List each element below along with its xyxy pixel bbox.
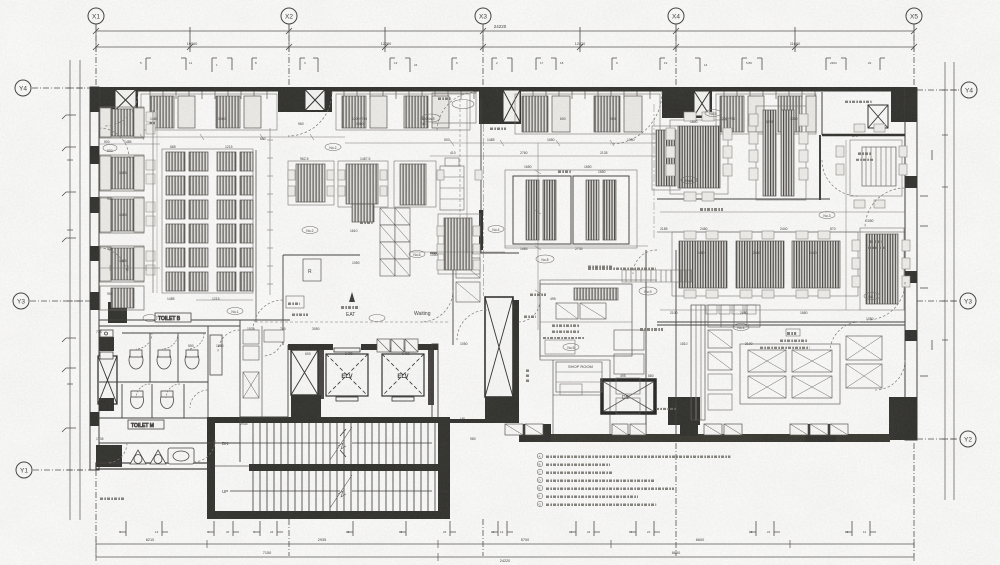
svg-text:22: 22 xyxy=(868,61,872,65)
F3 dark box xyxy=(680,424,698,436)
svg-text:600: 600 xyxy=(305,352,311,356)
corridor shelf boxes xyxy=(243,330,284,398)
svg-text:14: 14 xyxy=(500,530,504,534)
svg-text:6600: 6600 xyxy=(696,538,704,542)
door arc hall right xyxy=(457,310,487,340)
kitchen center counter xyxy=(540,284,632,356)
svg-text:R: R xyxy=(308,269,312,275)
svg-text:1485: 1485 xyxy=(119,213,127,217)
svg-text:1400: 1400 xyxy=(345,352,353,356)
svg-text:8210: 8210 xyxy=(146,538,154,542)
elevator ELV 1 xyxy=(326,354,368,396)
kitchen label xyxy=(786,329,800,336)
grid line Y3 left stub xyxy=(30,300,90,302)
chairs banquet long xyxy=(749,114,758,126)
svg-text:No.5: No.5 xyxy=(567,346,574,350)
mid table D tall xyxy=(438,214,480,274)
svg-text:1295+750: 1295+750 xyxy=(720,117,735,121)
svg-text:962.5: 962.5 xyxy=(300,157,309,161)
top elevation tick pairs xyxy=(146,58,885,72)
wall right of cluster xyxy=(255,150,257,322)
svg-text:UP: UP xyxy=(460,417,465,421)
svg-text:DN: DN xyxy=(442,489,449,494)
svg-text:21: 21 xyxy=(647,530,651,534)
lower-right banquet row xyxy=(672,232,858,296)
kitchen small equip labels xyxy=(622,270,692,282)
svg-text:600: 600 xyxy=(260,137,266,141)
grid line X1 xyxy=(95,24,97,88)
axis bubble Y3 right xyxy=(960,293,976,309)
kitchen top wall xyxy=(657,321,905,323)
top wall block X2 xyxy=(278,87,332,112)
stair top wall xyxy=(207,417,450,423)
svg-text:3050: 3050 xyxy=(312,327,320,331)
svg-text:17: 17 xyxy=(540,61,544,65)
text below tatami xyxy=(588,267,656,270)
svg-text:14: 14 xyxy=(155,530,159,534)
bottom dimension chain 1 xyxy=(96,543,914,545)
svg-text:11: 11 xyxy=(863,530,866,534)
toilet stalls row2 xyxy=(131,392,144,409)
svg-text:TOILET B: TOILET B xyxy=(158,316,181,322)
svg-text:735: 735 xyxy=(96,330,102,334)
svg-text:X3: X3 xyxy=(479,14,487,21)
left booth 3 xyxy=(100,197,155,233)
svg-text:2735: 2735 xyxy=(575,247,583,251)
svg-text:TOILET M: TOILET M xyxy=(131,423,154,429)
inner dim chain right rooms xyxy=(660,211,905,213)
private room wall right xyxy=(819,135,821,200)
elevator machine wall right xyxy=(432,344,438,419)
toilet block right wall xyxy=(239,320,241,462)
top band seats mid-left section xyxy=(336,94,470,130)
closet boxes right of EAT xyxy=(456,258,480,302)
ticks xyxy=(140,134,614,294)
axis bubble X5 xyxy=(906,8,922,24)
svg-text:1960: 1960 xyxy=(218,117,226,121)
svg-text:5700: 5700 xyxy=(521,538,529,542)
small service row xyxy=(706,305,756,314)
right vertical table xyxy=(860,228,904,310)
right big table xyxy=(670,120,728,194)
svg-text:13: 13 xyxy=(664,61,668,65)
stair mid landing band xyxy=(249,464,438,471)
svg-text:1650: 1650 xyxy=(598,170,606,174)
svg-text:1800: 1800 xyxy=(690,120,698,124)
svg-text:870: 870 xyxy=(830,227,836,231)
right wall outline xyxy=(905,88,917,440)
svg-text:No.9: No.9 xyxy=(644,290,651,294)
grid line X3 xyxy=(482,24,484,88)
door arc top X4 xyxy=(610,92,662,144)
svg-text:21: 21 xyxy=(767,530,771,534)
svg-text:F: F xyxy=(539,495,541,499)
svg-text:1215: 1215 xyxy=(212,297,220,301)
top band seats right section xyxy=(716,94,816,134)
svg-text:1485: 1485 xyxy=(167,297,175,301)
svg-text:14: 14 xyxy=(629,530,633,534)
toilet block bottom wall xyxy=(96,463,209,469)
保管室 box xyxy=(286,296,304,308)
door arc top-mid xyxy=(437,92,477,132)
svg-text:14: 14 xyxy=(704,63,708,67)
toilet stalls row1 xyxy=(129,351,143,369)
grid line Y4 left stub xyxy=(32,87,90,89)
eat room outline xyxy=(282,255,284,345)
pantry corridor walls xyxy=(645,250,647,434)
svg-text:13: 13 xyxy=(845,530,849,534)
svg-text:Y4: Y4 xyxy=(19,86,27,93)
svg-text:X1: X1 xyxy=(92,14,100,21)
top right corner block xyxy=(891,88,917,122)
svg-text:2135: 2135 xyxy=(600,151,608,155)
svg-text:1880: 1880 xyxy=(216,344,224,348)
inner dim vertical right xyxy=(845,140,847,310)
top band seats left section xyxy=(141,94,277,130)
svg-text:1485: 1485 xyxy=(124,140,132,144)
sink counter top xyxy=(100,330,113,337)
axis bubble X3 xyxy=(475,8,491,24)
EAT label with arrow xyxy=(349,292,355,302)
door arc left wall xyxy=(99,128,129,158)
door arc toilet B xyxy=(218,330,240,352)
svg-text:E: E xyxy=(539,487,541,491)
chairs lower-right row xyxy=(684,231,696,239)
svg-text:X5: X5 xyxy=(910,14,918,21)
svg-text:18: 18 xyxy=(749,530,753,534)
svg-text:No.8: No.8 xyxy=(541,258,548,262)
axis bubble Y2 right xyxy=(960,431,976,447)
axis bubble Y1 left xyxy=(16,462,32,478)
svg-text:2480: 2480 xyxy=(700,227,708,231)
left dim ticks xyxy=(67,88,83,470)
svg-text:1050: 1050 xyxy=(866,317,874,321)
mid table B2 xyxy=(394,161,436,207)
shop room shelves xyxy=(556,362,602,392)
svg-text:1650: 1650 xyxy=(524,165,532,169)
right dimension chains xyxy=(944,62,946,500)
top dimension chain 2 xyxy=(96,46,914,48)
svg-text:ELV: ELV xyxy=(397,374,408,380)
svg-text:11: 11 xyxy=(189,61,192,65)
dark block below PS xyxy=(291,395,321,419)
svg-text:13: 13 xyxy=(394,61,398,65)
inner dim chain vertical x538 xyxy=(537,143,539,330)
service counter small xyxy=(352,204,374,222)
svg-text:No.6: No.6 xyxy=(413,253,420,257)
tall shaft right of stair xyxy=(485,297,513,397)
grid line Y2 right stub xyxy=(917,438,958,440)
grid line Y4 right stub xyxy=(917,89,960,91)
svg-text:24: 24 xyxy=(587,530,591,534)
svg-text:No.3: No.3 xyxy=(823,214,830,218)
svg-text:410: 410 xyxy=(450,151,456,155)
small dark box above shaft xyxy=(99,337,114,351)
DS box xyxy=(602,380,655,413)
svg-text:900: 900 xyxy=(610,117,616,121)
svg-text:550: 550 xyxy=(188,344,194,348)
koagari label xyxy=(700,208,723,211)
axis bubble Y4 right xyxy=(961,82,977,98)
svg-text:DN: DN xyxy=(222,441,229,446)
top wall column box X1 xyxy=(115,90,136,111)
kitchen small inner boxes xyxy=(616,374,732,414)
svg-text:1487.5: 1487.5 xyxy=(360,157,370,161)
wardrobe near X3 xyxy=(432,93,506,129)
svg-text:5.89: 5.89 xyxy=(746,61,752,65)
bottom wall kitchen xyxy=(519,434,890,442)
stair treads lower flight xyxy=(253,471,435,511)
top wall block X1 xyxy=(96,87,138,112)
left booth 4 xyxy=(100,246,155,282)
svg-text:2100: 2100 xyxy=(745,342,753,346)
svg-text:No.4: No.4 xyxy=(492,228,499,232)
svg-text:1050: 1050 xyxy=(352,261,360,265)
svg-text:12420: 12420 xyxy=(575,42,586,46)
svg-text:11660: 11660 xyxy=(790,42,800,46)
legend notes xyxy=(537,453,730,507)
svg-text:1215: 1215 xyxy=(225,145,233,149)
tatami frame xyxy=(505,170,637,248)
svg-text:24: 24 xyxy=(270,530,274,534)
chairs mid tables xyxy=(288,170,295,180)
svg-text:900: 900 xyxy=(107,197,113,201)
center-left table grid xyxy=(162,149,253,293)
svg-text:No.7: No.7 xyxy=(868,295,875,299)
svg-text:2480: 2480 xyxy=(697,251,705,255)
door arc mid lower xyxy=(263,336,283,356)
svg-text:1680: 1680 xyxy=(800,311,808,315)
door arc top X2 right xyxy=(288,92,332,136)
toilet room labels xyxy=(155,313,191,322)
svg-text:495: 495 xyxy=(620,374,626,378)
bench wall line xyxy=(152,110,154,293)
grid line Y1 left stub xyxy=(33,469,90,471)
top band seats mid-right section xyxy=(515,94,660,134)
door arc right room xyxy=(822,160,858,196)
toilet internal partitions xyxy=(99,381,208,383)
vertical label 更衣室 xyxy=(526,369,530,372)
svg-text:No.3: No.3 xyxy=(709,112,716,116)
left booth 5 small xyxy=(100,286,144,310)
svg-text:685: 685 xyxy=(170,145,176,149)
svg-text:1400: 1400 xyxy=(402,352,410,356)
svg-text:880: 880 xyxy=(648,374,654,378)
svg-text:Y1: Y1 xyxy=(20,468,28,475)
axis bubble Y3 left xyxy=(13,293,29,309)
svg-text:18: 18 xyxy=(560,61,564,65)
svg-text:Y2: Y2 xyxy=(964,437,972,444)
svg-text:900: 900 xyxy=(107,247,113,251)
svg-text:2935: 2935 xyxy=(318,538,326,542)
door arc top-left entry xyxy=(104,92,138,126)
svg-text:500: 500 xyxy=(104,140,110,144)
left booth 1 xyxy=(100,107,155,138)
door arc toilet M xyxy=(107,443,127,463)
grid line X4 xyxy=(675,24,677,88)
axis bubble Y4 left xyxy=(15,80,31,96)
svg-text:No.5: No.5 xyxy=(427,117,434,121)
svg-text:Y3: Y3 xyxy=(17,299,25,306)
svg-text:SHOP ROOM: SHOP ROOM xyxy=(568,364,593,369)
chairs right vertical table xyxy=(852,240,860,251)
elevator ELV 2 xyxy=(382,354,424,396)
chairs right big table xyxy=(666,128,675,140)
svg-text:19: 19 xyxy=(399,530,403,534)
svg-text:2185: 2185 xyxy=(660,227,668,231)
corridor guide dashed xyxy=(255,321,450,323)
svg-text:Y3: Y3 xyxy=(964,299,972,306)
stair treads upper flight xyxy=(253,423,435,464)
svg-text:20: 20 xyxy=(226,530,230,534)
svg-text:500: 500 xyxy=(444,138,450,142)
wash basin xyxy=(168,448,194,464)
top wall block X3 area xyxy=(479,87,521,124)
svg-text:24220: 24220 xyxy=(500,559,511,563)
svg-text:A: A xyxy=(539,455,541,459)
mid table A xyxy=(288,161,334,205)
svg-text:2935: 2935 xyxy=(240,422,248,426)
slashes on top chains xyxy=(93,27,917,52)
svg-text:1485: 1485 xyxy=(119,259,127,263)
svg-text:24: 24 xyxy=(443,530,447,534)
svg-text:Waiting: Waiting xyxy=(414,311,431,317)
left wall flag marks xyxy=(62,115,76,432)
kitchen equipment blocks center xyxy=(614,305,882,404)
mid table B xyxy=(338,161,388,207)
inner dim chain vertical x467 xyxy=(466,100,468,253)
svg-text:1200+760: 1200+760 xyxy=(352,117,367,121)
svg-text:1485: 1485 xyxy=(119,171,127,175)
axis bubble X1 xyxy=(88,8,104,24)
svg-text:7150: 7150 xyxy=(263,551,271,555)
svg-text:495: 495 xyxy=(550,297,556,301)
svg-text:1610: 1610 xyxy=(350,229,358,233)
svg-text:1650: 1650 xyxy=(584,165,592,169)
svg-text:1050: 1050 xyxy=(866,219,874,223)
svg-text:1050: 1050 xyxy=(430,253,438,257)
elevator hall top wall xyxy=(288,344,333,350)
svg-text:8850: 8850 xyxy=(672,551,680,555)
lower dining top wall xyxy=(657,231,905,233)
corridor wall toilet top xyxy=(99,319,290,321)
balcony box with X xyxy=(868,105,888,128)
svg-text:1735: 1735 xyxy=(96,437,104,441)
svg-text:900: 900 xyxy=(107,149,113,153)
PS shaft xyxy=(291,350,318,395)
chairs private room4 xyxy=(836,146,844,157)
svg-text:2440: 2440 xyxy=(809,251,817,255)
svg-text:10060: 10060 xyxy=(187,42,198,46)
svg-text:No.6: No.6 xyxy=(685,179,692,183)
pantry label xyxy=(640,328,663,331)
svg-text:600: 600 xyxy=(560,117,566,121)
svg-text:870: 870 xyxy=(852,134,858,138)
svg-text:1050: 1050 xyxy=(627,138,635,142)
svg-text:Y4: Y4 xyxy=(965,88,973,95)
vertical dim chain x270 xyxy=(267,128,273,295)
door arc pantry xyxy=(633,250,657,274)
inner dim chain top center xyxy=(345,142,656,144)
dish cabinet xyxy=(440,158,464,210)
bottom dimension chain 2 xyxy=(96,556,914,558)
extra table left of big table xyxy=(652,126,680,190)
svg-text:UP: UP xyxy=(222,489,228,494)
left dimension chains xyxy=(69,60,71,520)
kitchen inner walls xyxy=(540,279,657,281)
svg-text:1250: 1250 xyxy=(790,117,798,121)
stair bottom wall xyxy=(207,511,450,519)
svg-text:2100: 2100 xyxy=(670,311,678,315)
svg-text:740: 740 xyxy=(420,122,426,126)
svg-text:2480: 2480 xyxy=(740,311,748,315)
left booth 2 xyxy=(100,155,155,191)
bottom right corner block xyxy=(889,397,917,440)
vanity right xyxy=(210,335,222,375)
long banquet table xyxy=(756,106,806,200)
stair right wall xyxy=(438,417,450,519)
svg-text:1485: 1485 xyxy=(487,138,495,142)
left wall outline xyxy=(90,87,99,470)
top wall block X4 xyxy=(662,87,712,118)
urinals xyxy=(130,450,146,464)
svg-text:No.4: No.4 xyxy=(737,326,744,330)
svg-text:No.2: No.2 xyxy=(306,229,313,233)
balcony label xyxy=(845,101,872,103)
svg-text:1960: 1960 xyxy=(356,122,364,126)
svg-text:1685: 1685 xyxy=(520,247,528,251)
door arc kitchen left xyxy=(518,300,540,322)
top dimension chain 1 xyxy=(96,30,914,32)
FS dark block xyxy=(668,397,700,425)
tatami platform 1 xyxy=(513,176,571,244)
svg-text:24220: 24220 xyxy=(494,24,507,29)
svg-text:X2: X2 xyxy=(285,14,293,21)
svg-text:2303: 2303 xyxy=(830,61,837,65)
cloak boxes xyxy=(377,339,418,352)
svg-text:ELV: ELV xyxy=(341,374,352,380)
small room R xyxy=(303,259,321,281)
svg-text:No.1: No.1 xyxy=(231,310,238,314)
right wall small marks xyxy=(920,150,932,376)
svg-text:1650: 1650 xyxy=(547,138,555,142)
door arc bottom right rooms xyxy=(830,322,860,352)
svg-text:980: 980 xyxy=(470,437,476,441)
door arc stair left xyxy=(193,440,215,462)
stair direction arrows xyxy=(230,429,432,491)
svg-text:X4: X4 xyxy=(672,14,680,21)
svg-text:No.2: No.2 xyxy=(329,146,336,150)
svg-text:1295: 1295 xyxy=(766,120,774,124)
door arc right wall upper xyxy=(865,188,905,228)
svg-text:EAT: EAT xyxy=(346,312,355,318)
door arc right wall mid xyxy=(867,282,905,320)
stair enclosure left wall xyxy=(207,417,215,519)
wall horizontal y253 center xyxy=(430,252,519,254)
axis bubble X4 xyxy=(668,8,684,24)
stair diagonal flight2 xyxy=(330,475,352,508)
kitchen equipment row along bottom wall xyxy=(505,424,848,435)
private room labels xyxy=(858,152,871,155)
svg-text:2440: 2440 xyxy=(780,227,788,231)
svg-text:11: 11 xyxy=(491,530,494,534)
svg-text:900: 900 xyxy=(107,292,113,296)
grid line X2 xyxy=(288,24,290,88)
drink labels xyxy=(552,324,580,327)
svg-text:1460: 1460 xyxy=(150,117,158,121)
wall center vertical x480 xyxy=(480,99,482,253)
stair diagonal flight1 xyxy=(330,427,352,460)
